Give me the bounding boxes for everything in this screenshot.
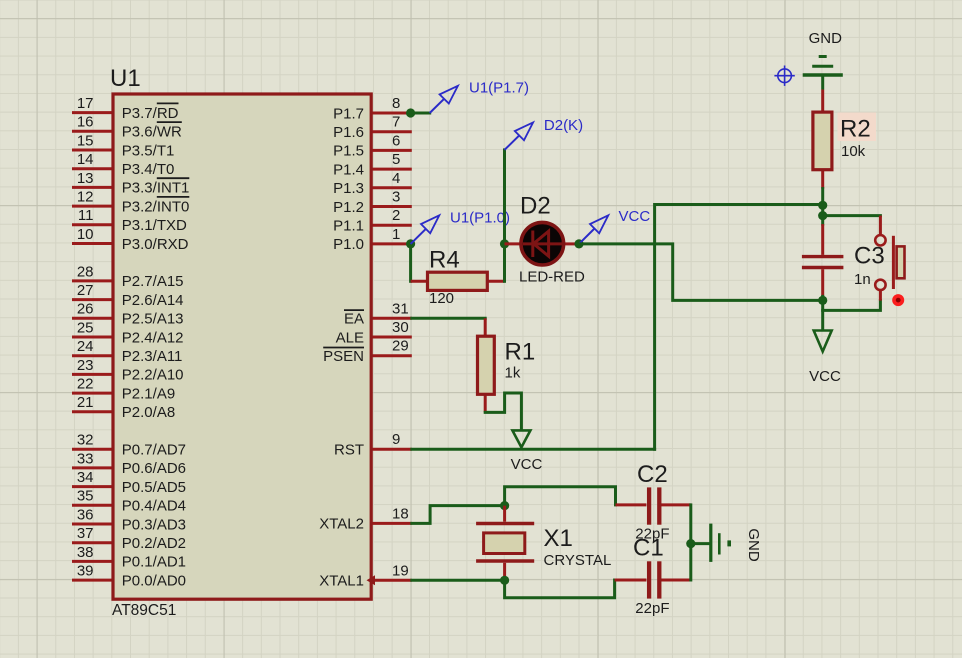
wire XTAL1 to crystal bottom [412,579,505,582]
svg-text:U1: U1 [110,65,141,92]
svg-text:30: 30 [392,319,409,336]
svg-text:P2.4/A12: P2.4/A12 [122,329,184,346]
power terminal VCC (mid) [512,430,530,447]
wire EA to R1 top [412,317,485,320]
pin 36 (P0.3/AD3) [72,506,186,533]
pin 31 (EA) [344,300,412,327]
svg-text:P1.0: P1.0 [333,236,364,253]
pin 10 (P3.0/RXD) [72,226,189,253]
svg-text:12: 12 [77,189,94,206]
svg-text:P2.6/A14: P2.6/A14 [122,292,184,309]
svg-text:10: 10 [77,226,94,243]
wire R1 bottom to VCC terminal [485,393,521,429]
svg-text:34: 34 [77,469,94,486]
svg-text:P2.5/A13: P2.5/A13 [122,311,184,328]
crystal X1 [476,506,534,581]
svg-text:14: 14 [77,151,94,168]
node P1.7 junction [406,108,415,117]
svg-text:P3.0/RXD: P3.0/RXD [122,236,189,253]
ground symbol (top) [803,57,843,90]
node D2 cathode junction [500,239,509,248]
wire P1.0 down to R4 [409,244,412,281]
svg-text:LED-RED: LED-RED [519,268,585,285]
svg-text:31: 31 [392,300,409,317]
svg-text:VCC: VCC [511,456,543,473]
node VCC junction at D2 [574,239,583,248]
svg-text:22: 22 [77,376,94,393]
svg-text:GND: GND [745,528,762,562]
svg-text:VCC: VCC [809,368,841,385]
svg-text:21: 21 [77,394,94,411]
node P1.0 junction [406,239,415,248]
pin 6 (P1.5) [333,132,412,159]
node VCC junction at C3 [818,296,827,305]
svg-text:1: 1 [392,226,400,243]
wire VCC net from D2 to C3 bottom [579,244,823,301]
net label U1(P1.0) arrow [411,215,440,244]
pin 39 (P0.0/AD0) [72,563,186,590]
svg-text:6: 6 [392,132,400,149]
wire crystal bottom to C1 left [505,580,615,598]
power terminal VCC (right) [814,331,832,352]
svg-text:PSEN: PSEN [323,348,364,365]
svg-text:P0.0/AD0: P0.0/AD0 [122,572,186,589]
svg-text:25: 25 [77,319,94,336]
pin 1 (P1.0) [333,226,412,253]
svg-text:C2: C2 [637,461,668,488]
wire C1 right up to ground node [689,544,692,580]
svg-text:P0.3/AD3: P0.3/AD3 [122,516,186,533]
svg-text:U1(P1.7): U1(P1.7) [469,80,529,97]
node ground junction [686,539,695,548]
LED D2 (LED-RED) [505,222,580,265]
svg-text:P1.4: P1.4 [333,161,364,178]
svg-text:15: 15 [77,132,94,149]
svg-text:P3.7/RD: P3.7/RD [122,105,179,122]
pin 29 (PSEN) [323,338,412,365]
svg-text:9: 9 [392,431,400,448]
pin 11 (P3.1/TXD) [72,207,187,234]
svg-text:CRYSTAL: CRYSTAL [544,552,612,569]
svg-text:23: 23 [77,357,94,374]
pin 27 (P2.6/A14) [72,282,184,309]
svg-text:P1.1: P1.1 [333,218,364,235]
svg-text:P0.7/AD7: P0.7/AD7 [122,442,186,459]
svg-text:24: 24 [77,338,94,355]
pin 14 (P3.4/T0) [72,151,174,178]
capacitor C1 [615,561,691,598]
pin 24 (P2.3/A11) [72,338,182,365]
svg-text:27: 27 [77,282,94,299]
svg-text:29: 29 [392,338,409,355]
pin 34 (P0.5/AD5) [72,469,186,496]
node crystal top junction [500,501,509,510]
svg-text:P0.4/AD4: P0.4/AD4 [122,498,186,515]
svg-text:XTAL1: XTAL1 [319,573,364,590]
svg-text:R1: R1 [505,339,536,366]
wire RST up to R2 node [655,205,823,450]
wire XTAL2 to crystal top [412,506,505,524]
svg-text:38: 38 [77,544,94,561]
pin 7 (P1.6) [333,114,412,141]
svg-text:P2.0/A8: P2.0/A8 [122,404,175,421]
node RST junction lower [818,211,827,220]
svg-text:35: 35 [77,488,94,505]
pin 23 (P2.2/A10) [72,357,184,384]
svg-text:P2.2/A10: P2.2/A10 [122,367,184,384]
wire R2 bottom to C3 top [821,189,824,225]
svg-text:P3.3/INT1: P3.3/INT1 [122,180,190,197]
svg-text:D2: D2 [520,193,551,220]
pin 13 (P3.3/INT1) [72,170,189,197]
svg-text:AT89C51: AT89C51 [112,602,176,619]
svg-text:VCC: VCC [619,208,651,225]
svg-text:1n: 1n [854,271,871,288]
svg-text:P3.5/T1: P3.5/T1 [122,142,175,159]
svg-text:C1: C1 [633,535,664,562]
svg-text:16: 16 [77,114,94,131]
pin 8 (P1.7) [333,95,412,122]
svg-text:P0.5/AD5: P0.5/AD5 [122,479,186,496]
svg-text:120: 120 [429,290,454,307]
svg-text:P2.1/A9: P2.1/A9 [122,385,175,402]
pin 3 (P1.2) [333,189,412,216]
svg-text:P0.2/AD2: P0.2/AD2 [122,535,186,552]
net label D2(K) arrow [505,122,534,149]
svg-text:GND: GND [809,30,843,47]
svg-text:8: 8 [392,95,400,112]
pin 12 (P3.2/INT0) [72,189,189,216]
svg-text:2: 2 [392,207,400,224]
svg-text:RST: RST [334,442,364,459]
wire R4 up to D2 anode [503,244,506,281]
svg-text:P1.3: P1.3 [333,180,364,197]
pin 22 (P2.1/A9) [72,376,175,403]
pin 17 (P3.7/RD) [72,95,179,122]
svg-text:32: 32 [77,432,94,449]
svg-text:XTAL2: XTAL2 [319,516,364,533]
pin 33 (P0.6/AD6) [72,450,186,477]
svg-text:33: 33 [77,450,94,467]
svg-text:D2(K): D2(K) [544,117,583,134]
svg-text:P0.6/AD6: P0.6/AD6 [122,460,186,477]
svg-text:3: 3 [392,189,400,206]
svg-text:P1.6: P1.6 [333,124,364,141]
IC U1 (AT89C51 microcontroller) [113,94,371,599]
svg-text:4: 4 [392,170,400,187]
svg-text:39: 39 [77,563,94,580]
wire D2 cathode up to label [503,150,506,244]
capacitor C3 [802,224,844,296]
pin XTAL1 clock arrow [367,575,376,585]
pin 21 (P2.0/A8) [72,394,175,421]
pin 5 (P1.4) [333,151,412,178]
svg-text:P3.2/INT0: P3.2/INT0 [122,198,190,215]
label R2 highlight [838,113,877,142]
svg-text:R4: R4 [429,247,460,274]
svg-text:36: 36 [77,506,94,523]
pin 16 (P3.6/WR) [72,114,182,141]
net label U1(P1.7) arrow [430,86,458,113]
pin 26 (P2.5/A13) [72,301,184,328]
svg-text:5: 5 [392,151,400,168]
svg-text:11: 11 [78,207,94,224]
button state indicator dot [892,294,904,306]
svg-text:19: 19 [392,562,409,579]
pin 38 (P0.1/AD1) [72,544,186,571]
pin 32 (P0.7/AD7) [72,432,186,459]
resistor R1 [478,318,495,412]
origin marker [774,66,794,86]
svg-text:18: 18 [392,505,409,522]
pin 37 (P0.2/AD2) [72,525,186,552]
svg-text:P2.7/A15: P2.7/A15 [122,273,184,290]
ground symbol (rotated, near crystal) [711,524,731,562]
svg-text:1k: 1k [505,365,521,382]
svg-text:U1(P1.0): U1(P1.0) [450,209,510,226]
svg-text:26: 26 [77,301,94,318]
svg-text:P3.4/T0: P3.4/T0 [122,161,175,178]
pin 2 (P1.1) [333,207,412,234]
wire crystal top to C2 left [505,487,616,506]
wire C2 right down to ground node [689,505,692,544]
capacitor C2 [616,487,691,524]
svg-text:ALE: ALE [336,329,364,346]
wire to button top [823,214,881,217]
pin 4 (P1.3) [333,170,412,197]
wire to ground symbol [691,542,710,545]
resistor R2 [813,90,832,189]
svg-text:X1: X1 [544,525,573,552]
svg-text:P3.6/WR: P3.6/WR [122,124,182,141]
svg-text:P1.2: P1.2 [333,199,364,216]
net label VCC arrow [579,215,608,244]
svg-text:10k: 10k [841,143,866,160]
svg-text:22pF: 22pF [635,600,669,617]
node crystal bottom junction [500,576,509,585]
svg-text:P1.5: P1.5 [333,143,364,160]
pin 35 (P0.4/AD4) [72,488,186,515]
push button [875,216,904,301]
svg-text:P0.1/AD1: P0.1/AD1 [122,554,186,571]
svg-text:13: 13 [77,170,94,187]
svg-text:37: 37 [77,525,94,542]
svg-text:17: 17 [77,95,94,112]
resistor R4 [411,272,505,290]
pin 19 (XTAL1) [319,562,412,589]
pin 15 (P3.5/T1) [72,132,174,159]
svg-text:7: 7 [392,114,400,131]
svg-text:P2.3/A11: P2.3/A11 [122,348,183,365]
svg-text:P3.1/TXD: P3.1/TXD [122,217,187,234]
svg-text:28: 28 [77,263,94,280]
pin 30 (ALE) [336,319,412,346]
pin 9 (RST) [334,431,412,458]
wire button bottom return [823,301,881,311]
svg-text:R2: R2 [840,116,871,143]
wire RST run [412,448,655,451]
pin 25 (P2.4/A12) [72,319,184,346]
pin 18 (XTAL2) [319,505,412,532]
svg-text:P1.7: P1.7 [333,105,364,122]
wire P1.7 stub to label [412,112,430,115]
pin 28 (P2.7/A15) [72,263,184,290]
node RST junction upper [818,201,827,210]
wire C3 bottom to VCC terminal [821,296,824,329]
svg-text:EA: EA [344,311,364,328]
